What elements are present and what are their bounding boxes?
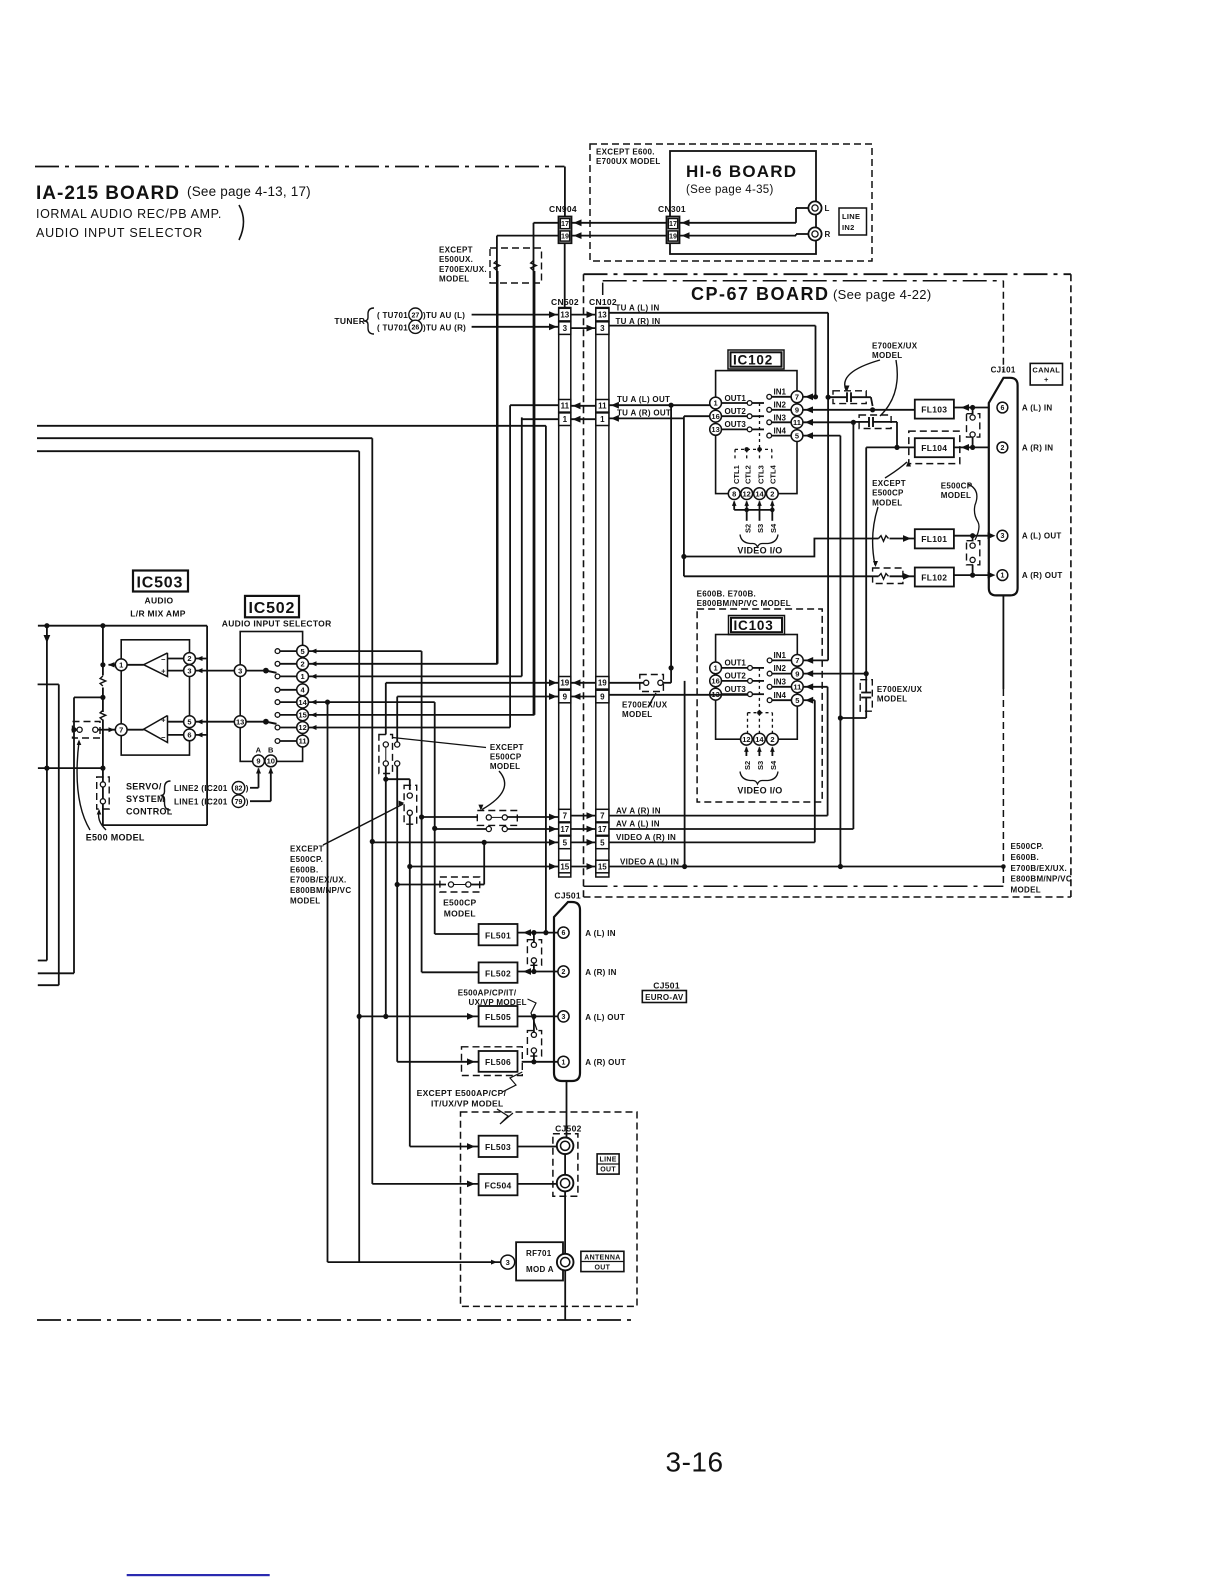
wire CN502-CN102 pin 15 — [571, 866, 596, 868]
svg-text:E500AP/CP/IT/: E500AP/CP/IT/ — [458, 989, 517, 998]
svg-text:E700B/EX/UX.: E700B/EX/UX. — [290, 876, 347, 885]
IC502 pin 3 — [234, 665, 246, 677]
wire FL102 feed — [684, 575, 879, 577]
filter FL102 — [915, 568, 954, 587]
wire IC102 IN2 to FL103 — [803, 409, 915, 411]
svg-text:IN1: IN1 — [774, 387, 787, 396]
wire IC502 pin15 to CN904-17 riser — [309, 714, 535, 716]
switch S507 E500CP MODEL (audio) — [397, 884, 446, 886]
svg-text:E500CP: E500CP — [872, 489, 904, 498]
wire bus line 3 to FL505/RF701 net — [37, 450, 359, 452]
CN102 pin 5 — [596, 836, 609, 849]
svg-text:): ) — [246, 797, 249, 806]
wire FL102 to CJ101 pin1 — [954, 574, 989, 576]
wire IC103 IN1 feed (TU A L IN) — [803, 659, 828, 661]
svg-text:3: 3 — [562, 1014, 566, 1021]
svg-text:12: 12 — [743, 489, 751, 498]
svg-text:13: 13 — [711, 425, 719, 434]
HI-6 board box — [670, 151, 816, 254]
svg-text:15: 15 — [598, 862, 607, 871]
svg-text:+: + — [161, 667, 166, 676]
switch S509 E500AP (bridge pin3/pin1) — [527, 1031, 541, 1057]
wire CN502-CN102 pin 5 — [571, 841, 596, 843]
svg-text:3: 3 — [506, 1258, 510, 1267]
CJ101 pin 2 — [997, 442, 1008, 453]
wire IC102 IN3 feed — [803, 421, 853, 423]
switch S505 EXCEPT E500CP (on pin7 wire) — [477, 811, 517, 826]
wire FL104 to CJ101 pin2 — [954, 446, 989, 448]
svg-text:1: 1 — [562, 1059, 566, 1066]
switch S-CJ101b E500CP (bridge A-L/A-R OUT) — [972, 536, 974, 541]
switch S506 (on pin17 wire) — [486, 826, 491, 831]
svg-text:LINE2 (IC201: LINE2 (IC201 — [174, 784, 228, 793]
op-amp block IC503 label — [133, 571, 188, 592]
CN502 pin 5 — [559, 836, 571, 849]
switch S502 E500 model (series on IC503 left edge) — [97, 777, 110, 809]
wire CJ501 to CJ502 spine — [566, 1081, 568, 1138]
svg-text:16: 16 — [711, 412, 719, 421]
wire IC502 pin5 to FL502 riser — [309, 650, 422, 652]
IC102 pin 8 — [728, 488, 740, 500]
svg-text:UX/VP MODEL: UX/VP MODEL — [469, 998, 527, 1007]
svg-text:IC502: IC502 — [249, 600, 296, 617]
svg-text:LINE: LINE — [842, 212, 860, 221]
svg-text:12: 12 — [742, 735, 750, 744]
filter FL103 — [915, 400, 954, 419]
svg-text:FL102: FL102 — [921, 572, 947, 582]
CN102 pin 13 — [596, 308, 609, 321]
wire CN502-11 riser (to IC502 pin12) — [510, 404, 559, 406]
svg-text:S3: S3 — [756, 524, 765, 533]
svg-text:7: 7 — [563, 812, 568, 821]
svg-text:MODEL: MODEL — [872, 351, 902, 360]
svg-text:CN102: CN102 — [589, 297, 617, 307]
wire IC102 control bus S2/S3/S4 — [734, 509, 772, 511]
svg-text:EURO-AV: EURO-AV — [645, 993, 684, 1002]
CJ101 pin 6 — [997, 402, 1008, 413]
svg-text:A (L) OUT: A (L) OUT — [585, 1013, 625, 1022]
svg-text:IN2: IN2 — [774, 664, 787, 673]
wire CN502-CN102 pin 7 — [571, 815, 596, 817]
svg-text:E500CP: E500CP — [443, 898, 476, 908]
svg-text:82: 82 — [235, 786, 243, 793]
svg-text:MODEL: MODEL — [622, 710, 652, 719]
svg-text:11: 11 — [793, 683, 801, 692]
wire CJ501 pin1 to FL506 — [522, 1061, 558, 1063]
switch IC IC103 label — [729, 616, 785, 635]
svg-text:S2: S2 — [743, 761, 752, 770]
wire IC502 pin2 to CN904-19 riser — [309, 663, 498, 665]
IC502 pin 12 — [275, 725, 280, 730]
svg-text:HI-6 BOARD: HI-6 BOARD — [686, 162, 797, 181]
svg-text:EXCEPT E600.: EXCEPT E600. — [596, 148, 655, 157]
IC102 control lines CTL1-CTL4 — [759, 403, 761, 449]
wire IC503 left edge — [102, 626, 104, 676]
svg-text:17: 17 — [669, 219, 677, 228]
svg-text:OUT: OUT — [595, 1264, 611, 1271]
svg-text:CP-67 BOARD: CP-67 BOARD — [691, 284, 830, 304]
svg-text:2: 2 — [770, 735, 774, 744]
svg-text:5: 5 — [301, 647, 305, 656]
wire CJ101 video spine — [1002, 595, 1004, 689]
IC103 control lines — [758, 668, 760, 713]
CN502 pin 13 — [559, 308, 571, 321]
svg-text:VIDEO A (L) IN: VIDEO A (L) IN — [620, 857, 679, 866]
filter FL101 — [915, 529, 954, 548]
svg-text:1: 1 — [563, 415, 568, 424]
CN502 pin 9 — [559, 690, 571, 703]
CN102 pin 3 — [596, 322, 609, 335]
CJ501 pin 2 — [558, 966, 569, 977]
svg-text:IN1: IN1 — [774, 651, 787, 660]
svg-text:3: 3 — [600, 324, 605, 333]
resistor mark on IC503 left edge lower — [100, 710, 106, 720]
svg-text:E800BM/NP/VC: E800BM/NP/VC — [290, 886, 351, 895]
filter FL505 — [479, 1006, 518, 1027]
svg-text:E700EX/UX.: E700EX/UX. — [439, 265, 487, 274]
wire CN502-CN102 pin 9 — [571, 696, 596, 698]
CN502 pin 11 — [559, 400, 571, 413]
RF701 pin 3 — [501, 1255, 515, 1269]
svg-text:E700EX/UX: E700EX/UX — [877, 685, 923, 694]
junction IC503 left edge — [100, 662, 105, 667]
svg-text:MODEL: MODEL — [1011, 886, 1041, 895]
svg-text:7: 7 — [119, 725, 123, 734]
svg-text:CN502: CN502 — [551, 297, 579, 307]
svg-text:19: 19 — [598, 679, 607, 688]
IC502 selector arm B — [246, 721, 266, 723]
svg-text:FL506: FL506 — [485, 1057, 511, 1067]
CN502 pin 7 — [559, 809, 571, 822]
LINE IN2 label box — [839, 208, 867, 235]
svg-text:2: 2 — [562, 969, 566, 976]
svg-text:−: − — [161, 655, 166, 664]
label box CANAL+ — [1030, 363, 1062, 385]
wire IC103 OUT1 net to TU A(L) OUT riser — [670, 405, 672, 668]
svg-text:OUT1: OUT1 — [725, 659, 747, 668]
svg-text:TU A (L) IN: TU A (L) IN — [616, 304, 660, 313]
wire FL502 feed — [422, 971, 479, 973]
svg-text:+: + — [1044, 375, 1049, 384]
svg-text:IN4: IN4 — [774, 426, 787, 435]
junction on IC503 top bus — [44, 623, 49, 628]
wire FL503 to CJ502 — [518, 1146, 557, 1148]
svg-text:3: 3 — [1000, 533, 1004, 540]
junction FL505 branch — [357, 1014, 362, 1019]
svg-text:A (R) OUT: A (R) OUT — [585, 1058, 626, 1067]
wire CN502-CN102 pin 11 — [571, 405, 596, 407]
svg-text:E700EX/UX: E700EX/UX — [622, 701, 668, 710]
wire RF701 feed — [328, 1261, 501, 1263]
jack R — [680, 235, 797, 237]
net AV A(L) IN wire to CN502-17 — [435, 828, 487, 830]
svg-text:S4: S4 — [769, 760, 778, 770]
wire left net C — [74, 696, 103, 698]
svg-text:E700B/EX/UX.: E700B/EX/UX. — [1011, 864, 1068, 873]
model box (dashed) around CJ502/RF701 — [461, 1112, 638, 1306]
svg-text:5: 5 — [563, 838, 568, 847]
svg-text:5: 5 — [600, 838, 605, 847]
svg-text:MODEL: MODEL — [941, 491, 971, 500]
svg-text:2: 2 — [187, 654, 191, 663]
svg-text:6: 6 — [1000, 405, 1004, 412]
net VIDEO A(R) IN wire to CN502-5 — [372, 841, 558, 843]
svg-text:12: 12 — [298, 723, 306, 732]
svg-text:OUT1: OUT1 — [725, 394, 747, 403]
svg-text:E500UX.: E500UX. — [439, 255, 473, 264]
svg-text:9: 9 — [795, 669, 799, 678]
wire long horizontal to E500 switch net — [38, 767, 103, 769]
wire CN502-CN102 pin 1 — [571, 418, 596, 420]
filter FL502 — [479, 962, 518, 982]
svg-text:FL501: FL501 — [485, 930, 511, 940]
svg-text:IN3: IN3 — [774, 677, 787, 686]
IC502 pin 9 — [253, 755, 265, 767]
svg-text:IN2: IN2 — [774, 400, 787, 409]
svg-text:6: 6 — [562, 930, 566, 937]
svg-text:5: 5 — [795, 696, 799, 705]
svg-text:(See page 4-22): (See page 4-22) — [833, 287, 931, 302]
HI-6 board model box (dashed) — [590, 144, 872, 261]
svg-text:TU A (L) OUT: TU A (L) OUT — [617, 395, 670, 404]
CN502 pin 17 — [559, 823, 571, 836]
IC503 pin 3 — [168, 670, 235, 672]
cut-mark box EXCEPT E500UX/E700EX-UX — [490, 248, 542, 283]
svg-text:LINE: LINE — [600, 1157, 617, 1164]
svg-text:1: 1 — [714, 399, 718, 408]
svg-text:CJ501: CJ501 — [554, 891, 581, 901]
svg-text:EXCEPT: EXCEPT — [490, 743, 524, 752]
svg-text:L: L — [825, 204, 830, 213]
svg-text:E500CP: E500CP — [490, 753, 522, 762]
svg-text:10: 10 — [267, 757, 275, 766]
svg-text:MODEL: MODEL — [872, 498, 902, 507]
svg-text:9: 9 — [256, 757, 260, 766]
svg-text:E800BM/NP/VC: E800BM/NP/VC — [1011, 875, 1072, 884]
svg-text:7: 7 — [795, 393, 799, 402]
brace under IC103 S2-S4 — [740, 772, 778, 785]
svg-text:E500CP.: E500CP. — [290, 855, 323, 864]
svg-text:E700EX/UX: E700EX/UX — [872, 342, 918, 351]
svg-text:13: 13 — [236, 717, 244, 726]
capacitor C-E700c (on IC103 IN2 riser) — [860, 680, 872, 712]
wire FL103 to CJ101 pin6 — [954, 407, 989, 409]
svg-text:17: 17 — [560, 825, 569, 834]
svg-text:VIDEO A (R) IN: VIDEO A (R) IN — [616, 833, 676, 842]
svg-text:MODEL: MODEL — [439, 275, 469, 284]
svg-text:VIDEO I/O: VIDEO I/O — [737, 786, 782, 796]
RF701 antenna jack — [557, 1254, 574, 1271]
svg-text:(See page 4-35): (See page 4-35) — [686, 184, 774, 196]
svg-text:A (L) IN: A (L) IN — [585, 929, 616, 938]
wire bus line 2 to FL504 net — [37, 437, 372, 439]
CP-67 board outline (dash-dot) — [584, 273, 1071, 275]
IC103 pin 12 — [741, 733, 753, 745]
IC103 pin 2 — [767, 733, 779, 745]
svg-text:CJ101: CJ101 — [991, 366, 1016, 375]
op-amp U2 lower triangle — [144, 716, 168, 743]
svg-text:E500 MODEL: E500 MODEL — [86, 833, 145, 843]
net AV A(R) IN wire to CN502-7 — [422, 816, 478, 818]
riser FL104/IC103-IN2 (with cap) — [865, 447, 867, 688]
wire CN301-17 to CN904-17 — [572, 222, 667, 224]
svg-text:E600B.: E600B. — [1011, 853, 1039, 862]
CN102 pin 7 — [596, 809, 609, 822]
label box LINE OUT — [597, 1154, 619, 1174]
svg-text:A: A — [256, 746, 262, 755]
svg-text:RF701: RF701 — [526, 1249, 552, 1258]
wire IC503 top feedback bus — [38, 625, 207, 627]
svg-text:MOD A: MOD A — [526, 1265, 554, 1274]
svg-text:TUNER: TUNER — [334, 316, 365, 326]
IC502 pin 14 — [275, 700, 280, 705]
svg-text:B: B — [268, 746, 274, 755]
wire FL506 feed — [397, 1061, 478, 1063]
svg-text:3: 3 — [238, 666, 242, 675]
wire CJ501 pin3 to FL505 — [518, 1015, 558, 1017]
svg-text:1: 1 — [301, 672, 305, 681]
link underline — [127, 1574, 270, 1576]
svg-text:26: 26 — [412, 325, 420, 332]
svg-text:27: 27 — [412, 312, 420, 319]
svg-text:5: 5 — [187, 717, 191, 726]
IC502 pin 2 — [275, 661, 280, 666]
svg-text:17: 17 — [598, 825, 607, 834]
svg-text:TU A (R) IN: TU A (R) IN — [616, 317, 661, 326]
wire FL101 to CJ101 pin3 — [954, 535, 989, 537]
IC503 pin 1 — [109, 664, 144, 666]
svg-text:( TU701: ( TU701 — [377, 311, 408, 320]
IC102 pin 12 — [741, 488, 753, 500]
filter FL104 — [909, 431, 960, 464]
svg-text:CTL2: CTL2 — [744, 465, 753, 484]
svg-text:FL104: FL104 — [921, 443, 947, 453]
svg-text:1: 1 — [714, 664, 718, 673]
junction VIDEO A(R) branch — [370, 839, 375, 844]
switch S503 (dashed box, column A) — [379, 735, 393, 774]
svg-text:11: 11 — [598, 402, 607, 411]
switch S-CJ101a E500CP (bridge A-L/A-R IN) — [972, 408, 974, 414]
svg-text:9: 9 — [600, 692, 605, 701]
IC502 pin 1 — [275, 674, 280, 679]
svg-text:MODEL: MODEL — [877, 695, 907, 704]
wire FL501 feed — [435, 933, 479, 935]
svg-text:EXCEPT: EXCEPT — [439, 246, 473, 255]
jack L — [680, 222, 797, 224]
CN502 pin 1 — [559, 413, 571, 426]
wire IC103 S2/S3/S4 arrows — [745, 748, 747, 755]
svg-text:SERVO/: SERVO/ — [126, 782, 162, 792]
op-amp IC503 block box — [121, 640, 189, 755]
wire FL503 feed — [410, 1146, 479, 1148]
wire FL504 to CJ502 — [518, 1183, 557, 1185]
svg-text:7: 7 — [600, 812, 605, 821]
switch S-E700 (on CN102-19 wire) — [640, 675, 664, 692]
net VIDEO A(L) IN wire to CN502-15 — [410, 866, 559, 868]
svg-text:11: 11 — [299, 737, 307, 746]
svg-text:19: 19 — [560, 679, 569, 688]
wire FL101 feed from video section — [681, 554, 686, 559]
svg-text:E600B. E700B.: E600B. E700B. — [697, 590, 757, 599]
wire CN904 to CN502 riser — [564, 243, 566, 307]
CN102 pin 17 — [596, 823, 609, 836]
svg-text:): ) — [246, 784, 249, 793]
svg-text:LINE1 (IC201: LINE1 (IC201 — [174, 797, 228, 806]
A-215 board outline (dash-dot border) — [35, 166, 565, 168]
svg-text:CTL3: CTL3 — [756, 465, 765, 484]
wire IC502 pin1 to CN502-1 riser — [309, 675, 522, 677]
IC502 pin 13 — [234, 716, 246, 728]
op-amp U1 upper triangle — [144, 653, 168, 677]
cut mark on pin19 riser — [494, 261, 500, 271]
svg-text:IORMAL AUDIO REC/PB AMP.: IORMAL AUDIO REC/PB AMP. — [36, 207, 222, 221]
svg-text:A (L) OUT: A (L) OUT — [1022, 532, 1062, 541]
svg-text:IT/UX/VP MODEL: IT/UX/VP MODEL — [431, 1099, 504, 1109]
wire CN904-19 left — [497, 235, 559, 237]
svg-text:14: 14 — [755, 489, 764, 498]
IC102 pin 14 — [754, 488, 766, 500]
svg-text:79: 79 — [235, 799, 243, 806]
svg-text:19: 19 — [669, 232, 677, 241]
svg-text:9: 9 — [563, 692, 568, 701]
CN502 pin 19 — [559, 677, 571, 690]
svg-text:FL503: FL503 — [485, 1142, 511, 1152]
svg-text:1: 1 — [119, 661, 123, 670]
svg-text:1: 1 — [1000, 573, 1004, 580]
svg-text:S4: S4 — [769, 523, 778, 533]
svg-text:19: 19 — [561, 232, 569, 241]
wire IC103 OUT3 to CN102-9 — [609, 694, 748, 696]
svg-text:14: 14 — [755, 735, 764, 744]
svg-text:17: 17 — [561, 219, 569, 228]
wire CN502-CN102 pin 19 — [571, 682, 596, 684]
wire IC502 pin12 to CN502-11 riser — [309, 727, 511, 729]
svg-text:IC102: IC102 — [733, 353, 773, 368]
svg-text:3-16: 3-16 — [666, 1447, 724, 1478]
svg-text:)TU AU (R): )TU AU (R) — [423, 323, 466, 332]
svg-text:EXCEPT: EXCEPT — [290, 845, 324, 854]
svg-text:FL103: FL103 — [921, 405, 947, 415]
svg-text:(See page 4-13, 17): (See page 4-13, 17) — [187, 184, 311, 199]
IC503 pin 2 — [168, 658, 208, 660]
svg-text:3: 3 — [563, 324, 568, 333]
svg-text:11: 11 — [793, 418, 801, 427]
wire FL504 feed — [372, 1183, 478, 1185]
svg-text:TU A (R) OUT: TU A (R) OUT — [617, 408, 671, 417]
IC103 pin 14 — [754, 733, 766, 745]
svg-text:A (R) IN: A (R) IN — [585, 968, 616, 977]
svg-text:16: 16 — [711, 677, 719, 686]
svg-text:VIDEO I/O: VIDEO I/O — [737, 546, 782, 556]
CN102 pin 15 — [596, 860, 609, 873]
svg-text:AUDIO INPUT SELECTOR: AUDIO INPUT SELECTOR — [222, 619, 332, 629]
junction below switches — [383, 777, 388, 782]
wire CN502-CN102 pin 17 — [571, 828, 596, 830]
IC102 pin 2 — [766, 488, 778, 500]
wire CN904 riser from board edge — [564, 167, 566, 217]
IC503 pin 6 — [168, 734, 208, 736]
wire IC103 OUT2 riser — [684, 681, 686, 867]
svg-text:EXCEPT: EXCEPT — [872, 479, 906, 488]
IC502 pin 10 — [265, 755, 277, 767]
CJ101 pin 3 — [988, 532, 996, 539]
svg-text:CANAL: CANAL — [1032, 366, 1060, 375]
capacitor C-E700b (bridge 2, E700EX/UX) — [859, 415, 891, 429]
wire CN502-9 feed — [397, 696, 559, 698]
svg-text:2: 2 — [770, 489, 774, 498]
CJ501 pin 1 — [558, 1056, 569, 1067]
svg-text:6: 6 — [187, 731, 191, 740]
